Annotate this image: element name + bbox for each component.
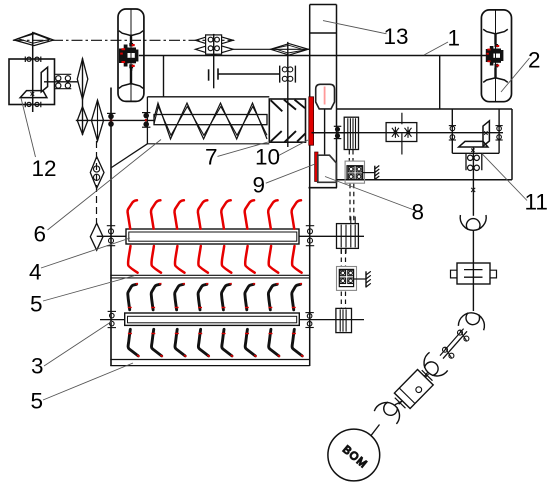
right hub red pins	[486, 45, 499, 67]
svg-text:4: 4	[29, 260, 42, 285]
universal joint 4	[374, 398, 404, 424]
red tines top row	[128, 200, 301, 228]
right wheel rim top	[483, 29, 508, 44]
bearing right hanger	[496, 126, 503, 140]
shaft UJ3 to gearbox	[425, 373, 428, 377]
bearing bottom of reducer 12	[25, 102, 41, 108]
cluster vertical shaft	[213, 34, 215, 88]
vertical jackshaft	[82, 58, 84, 135]
output shaft of reducer 12	[44, 81, 78, 83]
svg-text:12: 12	[32, 156, 57, 181]
bevel gear bracket inside reducer 12	[20, 67, 47, 97]
fan housing (hatched box)	[269, 99, 305, 142]
auger trough left wall	[146, 97, 148, 144]
red strip 9	[315, 152, 318, 182]
PTO circle BOM	[328, 429, 380, 481]
red tine bar 4	[126, 229, 299, 244]
bevel gear small on jackshaft lower end	[77, 107, 88, 135]
right wheel hub (black)	[486, 44, 504, 67]
auger trough bottom	[147, 143, 269, 145]
gearbox housing frame (big box)	[337, 109, 513, 180]
gear cluster on axle (two flat gears)	[195, 35, 233, 55]
leader 5 upper	[43, 276, 135, 302]
bearing black bar right	[305, 313, 313, 328]
bearing black bar left	[108, 311, 116, 327]
leader 2	[501, 58, 530, 92]
dashed drive chain below hub box	[349, 150, 353, 161]
leader 12	[21, 98, 36, 157]
sliding spline box on red-bar shaft	[337, 217, 359, 254]
svg-text:3: 3	[31, 354, 44, 379]
coupling on fan vertical shaft	[280, 66, 296, 83]
conditioner block upper	[316, 84, 335, 109]
countershaft to fan bevel	[233, 48, 310, 50]
universal joint 2	[458, 311, 486, 331]
axle centerline (dash-dot)	[13, 39, 234, 41]
dashed vertical shaft to tine bar drive	[96, 141, 98, 223]
beater red strip 10	[309, 97, 314, 145]
black bar stub shaft left	[100, 319, 125, 321]
pink roller line	[324, 87, 326, 105]
cross shaft in column	[312, 132, 349, 134]
dashed chain box8 to slider	[350, 184, 354, 223]
support wall w/ hatch lower	[354, 271, 371, 287]
overload clutch box	[386, 113, 417, 155]
leader lines	[21, 21, 530, 400]
bearing top of reducer 12	[25, 57, 41, 63]
x mark on shaft	[471, 188, 475, 192]
svg-text:5: 5	[31, 389, 44, 414]
bevel gear pair symbol top-left	[14, 33, 53, 46]
shaft UJ4 to PTO circle	[371, 425, 380, 436]
left wheel hub final drive (black)	[119, 43, 138, 71]
bevel/clutch diamond with rollers on dashed shaft	[90, 157, 104, 189]
gear pair box 8	[345, 161, 364, 183]
gear pair box lower	[337, 267, 357, 291]
bevel bracket horizontal gear	[459, 141, 488, 147]
trough chute to frame	[112, 144, 148, 168]
conditioner block lower	[318, 155, 337, 182]
leader 8	[325, 177, 414, 211]
left wheel centerline	[130, 9, 132, 101]
bearing red bar right	[306, 226, 314, 246]
leader 1	[424, 42, 448, 55]
svg-text:5: 5	[30, 292, 43, 317]
frame divider rails (item 5 upper)	[110, 275, 309, 278]
svg-text:13: 13	[384, 24, 409, 49]
black-bar shaft extension	[299, 319, 364, 321]
elastic coupling	[451, 263, 497, 284]
PTO gearbox on diagonal	[391, 366, 436, 412]
dashed chain gear pair 2 to black-bar coupling	[341, 292, 345, 309]
black tines bottom row	[128, 329, 304, 356]
support wall w/ hatch for box 8	[363, 166, 380, 180]
shaft UJ1 to coupling	[472, 231, 474, 312]
leader 6	[48, 140, 162, 231]
fan vertical shaft	[287, 42, 289, 147]
bevel gear pair above fan shaft	[270, 44, 308, 55]
elevator column 13	[309, 5, 338, 367]
svg-text:1: 1	[448, 26, 461, 51]
auger trough top edge	[147, 96, 269, 98]
left frame member	[110, 88, 112, 367]
svg-text:10: 10	[255, 145, 280, 170]
bevel gear driving red tine bar	[90, 223, 103, 250]
universal joint 1	[460, 215, 486, 230]
bevel gear on auger drive shaft	[92, 100, 104, 141]
belt line to fan shaft coupling	[218, 73, 280, 75]
frame upright right	[439, 56, 441, 110]
red tines bottom row	[128, 246, 302, 273]
svg-text:ВОМ: ВОМ	[340, 444, 370, 472]
U-frame hangers for bevel unit	[452, 109, 499, 153]
left wheel rim profile top	[119, 31, 143, 45]
leader 7	[218, 142, 269, 156]
bearing on trough wall for auger shaft	[142, 113, 150, 128]
x mark under bracket	[471, 149, 474, 153]
svg-text:6: 6	[34, 222, 47, 247]
leader 5 lower	[43, 363, 133, 400]
left wheel tire	[118, 9, 144, 101]
svg-text:2: 2	[528, 48, 541, 73]
left hub red pins	[120, 44, 135, 67]
x mark on bevel	[484, 131, 487, 135]
main transmission shaft	[312, 132, 504, 134]
svg-text:7: 7	[205, 145, 218, 170]
leader 9	[266, 164, 315, 183]
bearing left hanger	[449, 126, 456, 140]
red-bar shaft extension	[299, 235, 364, 237]
right wheel tire 2	[481, 10, 511, 102]
clutch star symbols	[392, 127, 412, 138]
bevel gear tall on vertical jackshaft	[77, 59, 88, 100]
pulley tick	[208, 69, 210, 80]
coupling on reducer 12 output (4 circles)	[55, 74, 72, 88]
leader 3	[44, 321, 112, 366]
black tines top row	[128, 284, 302, 310]
frame upright to auger trough	[163, 56, 165, 97]
right wheel centerline	[495, 10, 497, 102]
auger drive shaft	[76, 119, 154, 121]
left wheel rim profile bottom	[119, 68, 143, 88]
bearing red bar left	[107, 226, 115, 246]
reducer housing 12	[9, 59, 55, 105]
PTO bevel output coupling (4 circles)	[466, 153, 482, 170]
coupling on black-bar shaft	[336, 308, 352, 332]
telescopic PTO shaft	[440, 329, 469, 359]
leader 10	[277, 140, 308, 156]
bearing on column right edge	[334, 126, 342, 138]
leader 4	[41, 238, 130, 268]
belt shaft flange	[217, 68, 219, 79]
auger 7 spiral flights	[154, 103, 267, 139]
vertical shaft from axle bevel into reducer 12	[32, 32, 34, 112]
stub shaft into red tine bar	[97, 235, 126, 237]
svg-text:8: 8	[412, 200, 425, 225]
black tine bar 3	[125, 313, 300, 325]
right wheel rim bottom	[483, 68, 508, 83]
auger 7 shaft tube	[154, 115, 267, 125]
dashed chain slider to gear pair 2	[341, 250, 345, 267]
svg-text:11: 11	[525, 190, 548, 215]
PTO input vertical shaft	[472, 147, 474, 216]
bevel bracket vertical gear	[483, 121, 489, 146]
universal joint 3	[419, 352, 448, 381]
bearing on frame left for auger shaft	[107, 113, 116, 126]
frame bottom rails (item 5 lower)	[110, 360, 309, 366]
leader 13	[323, 21, 387, 34]
svg-text:9: 9	[253, 173, 266, 198]
main frame beam 1	[139, 55, 490, 57]
shaft gearbox to UJ4	[395, 402, 402, 405]
leader 11	[482, 154, 527, 201]
shaft between conditioner blocks	[324, 109, 326, 155]
splined sliding hub box	[344, 117, 358, 149]
